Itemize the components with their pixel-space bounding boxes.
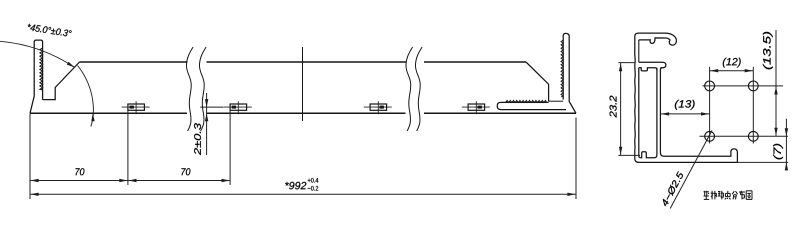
rivet point 1 [128, 104, 144, 110]
label 70 first [75, 168, 84, 175]
section outer wall and top arm [635, 33, 677, 158]
dimension line 23.2 [620, 63, 622, 156]
section middle arm underside with lip [639, 68, 657, 71]
label (13.5) [763, 32, 773, 69]
right bottom serrated strip [497, 102, 566, 109]
break mark 1b [199, 47, 206, 131]
angular dimension leader arc [0, 41, 75, 67]
right end base line [549, 100, 564, 102]
left end chamfer and step [43, 62, 80, 100]
left cut-face serration [40, 48, 43, 90]
rivet square horizontals [703, 85, 784, 87]
label 4-dia2.5 [661, 171, 685, 207]
dimension line 7 [785, 119, 787, 170]
label 45.0 +-0.3 [27, 24, 72, 38]
label 992 with tolerance [285, 182, 306, 189]
rivet point 4 [468, 104, 485, 110]
right tab serration [561, 40, 563, 97]
section middle arm [639, 62, 666, 68]
right end top chamfer [526, 62, 549, 101]
angular dimension leader arrow [67, 62, 75, 68]
dimension line 2+-0.3 [206, 93, 208, 155]
extension line rivet2 [229, 111, 231, 185]
extension line rivet1 [127, 111, 129, 185]
dimension 23.2 extension ticks [618, 62, 634, 64]
rivet hole bottom-right [748, 131, 758, 141]
right vertical tab [563, 33, 576, 113]
profile bottom edge [30, 112, 187, 114]
section inner wall upper [638, 40, 640, 62]
angular dimension arc [78, 66, 94, 127]
label (13) [675, 100, 695, 110]
dimension line 992 overall [30, 193, 576, 195]
label (12) [723, 58, 741, 68]
dimension line 13.5 [775, 30, 777, 136]
label (7) [773, 144, 783, 160]
rivet hole bottom-left [705, 131, 715, 141]
dimension line 12 [710, 70, 754, 72]
label 70 second [181, 168, 190, 175]
section top arm underside [639, 38, 671, 44]
dimension line 70 second [128, 180, 230, 182]
label 2+-0.3 [194, 123, 201, 155]
dimension line 70 first [30, 180, 128, 182]
bottom plate extension line [737, 161, 788, 163]
break mark 2a [406, 47, 413, 131]
extension line left end [29, 114, 31, 199]
caption profile rivet distribution [704, 191, 709, 193]
left cut-face strip [30, 40, 43, 113]
section bottom plate outer [635, 158, 738, 162]
rivet hole top-left [705, 81, 715, 91]
rivet hole top-right [748, 81, 758, 91]
dimension line 13 [661, 113, 710, 115]
mid profile reference line [302, 47, 304, 121]
profile top edge [80, 61, 188, 63]
angular dimension arc arrow [91, 113, 94, 121]
break mark 2b [415, 47, 422, 131]
rivet point 3 [370, 104, 387, 110]
section stem and bottom plate inner [660, 68, 737, 163]
rivet point 2 [230, 104, 247, 110]
label 23.2 [610, 96, 617, 118]
section inner wall lower [639, 68, 657, 158]
extension line right end [575, 118, 577, 200]
break mark 1a [186, 47, 193, 131]
leader 4-dia2.5 [670, 131, 712, 209]
rivet square verticals [709, 67, 711, 144]
right strip serration [506, 101, 547, 103]
dimension 2 +-0.3 extension tick [200, 106, 223, 108]
